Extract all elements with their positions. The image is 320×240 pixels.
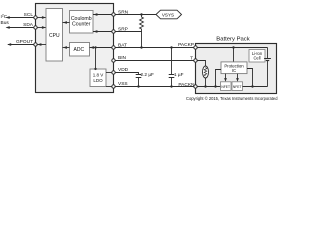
pin VSS xyxy=(112,85,115,88)
pin BIN xyxy=(112,59,115,62)
svg-text:VSYS: VSYS xyxy=(162,12,174,17)
pin PACKP xyxy=(194,46,197,49)
svg-text:2.2 µF: 2.2 µF xyxy=(141,72,155,77)
svg-text:SCL: SCL xyxy=(24,12,34,18)
arrowhead into Coulomb Counter SRN xyxy=(93,13,97,16)
IC U1 (fuel gauge) body xyxy=(36,4,114,93)
svg-text:NFET: NFET xyxy=(221,85,230,89)
junction C2 / VSS line xyxy=(170,85,172,87)
wire SRN internal xyxy=(93,14,114,16)
pin SCL xyxy=(34,16,37,19)
junction PACKN rail / protection tap xyxy=(214,85,216,87)
wire thermistor to PACKN rail xyxy=(205,78,207,87)
arrowhead SCL left xyxy=(6,16,10,19)
arrowhead into CPU from Coulomb Counter xyxy=(63,21,67,24)
pin T xyxy=(194,59,197,62)
svg-text:Bus: Bus xyxy=(1,20,10,26)
junction 1uF / BAT line xyxy=(170,46,172,48)
Battery Pack box xyxy=(196,44,277,94)
pin GPOUT xyxy=(34,43,37,46)
junction protection right / bottom rail xyxy=(251,85,253,87)
svg-text:GPOUT: GPOUT xyxy=(16,39,33,45)
Protection IC U3 xyxy=(221,62,247,74)
wire PACKN rail to Protection IC left xyxy=(216,70,222,87)
Li-Ion Cell label box xyxy=(249,50,265,63)
svg-text:I2C: I2C xyxy=(1,14,8,20)
svg-text:T: T xyxy=(190,55,193,61)
svg-text:Cell: Cell xyxy=(253,55,260,60)
svg-text:NFET: NFET xyxy=(233,85,242,89)
wire VSS internal xyxy=(106,86,114,88)
wire stub to Protection IC xyxy=(233,48,235,62)
battery cell BT1 xyxy=(264,48,271,87)
label I2C Bus xyxy=(1,14,10,26)
ADC block xyxy=(70,43,90,57)
svg-text:PACKP: PACKP xyxy=(178,42,194,48)
wire SRP external xyxy=(115,32,141,48)
capacitor C2 1uF xyxy=(169,48,184,87)
wire Q2 to cell negative xyxy=(243,86,268,88)
wire SRN to VSYS xyxy=(115,14,156,16)
pin SRN xyxy=(112,13,115,16)
arrowhead into Coulomb Counter SRP xyxy=(93,30,97,33)
arrowhead gate Q1 xyxy=(224,78,227,82)
wire PACKN to NFET1 xyxy=(197,86,221,88)
junction at LDO top xyxy=(94,68,96,70)
wire ADC to CPU xyxy=(63,47,70,49)
wire VSS to PACKN xyxy=(115,86,194,88)
svg-text:LDO: LDO xyxy=(93,78,103,83)
net label VSYS xyxy=(156,10,182,19)
wire PACKP rail xyxy=(197,47,267,49)
svg-text:Copyright © 2015, Texas Instru: Copyright © 2015, Texas Instruments Inco… xyxy=(186,96,278,101)
pin SDA xyxy=(34,26,37,29)
arrowhead GPOUT left xyxy=(7,43,11,46)
arrowhead SDA into CPU xyxy=(42,26,46,29)
pin SRP xyxy=(112,30,115,33)
transistor Q1 NFET xyxy=(221,82,232,91)
thermistor RT1 xyxy=(203,66,209,78)
pin VDD xyxy=(112,71,115,74)
wire T to thermistor xyxy=(197,61,205,67)
svg-text:Battery Pack: Battery Pack xyxy=(216,36,249,42)
pin BAT xyxy=(112,46,115,49)
wire GPOUT internal xyxy=(37,44,46,46)
arrowhead into CPU from ADC xyxy=(63,46,67,49)
wire VDD internal xyxy=(106,72,114,74)
junction BAT to LDO xyxy=(94,46,96,48)
wire SCL external xyxy=(7,17,34,19)
wire Coulomb Counter to CPU xyxy=(63,22,70,24)
wire GPOUT external xyxy=(8,44,34,46)
wire gate Q1 xyxy=(225,74,227,81)
LDO U2 (1.8 V LDO) block xyxy=(90,69,106,87)
svg-text:1.8 V: 1.8 V xyxy=(93,73,104,78)
CPU block xyxy=(46,9,63,62)
wire SDA internal xyxy=(37,27,45,29)
arrowhead SCL into CPU xyxy=(42,16,46,19)
svg-text:CPU: CPU xyxy=(49,33,60,39)
wire SDA external xyxy=(7,27,34,29)
wire BAT down to LDO xyxy=(95,48,97,70)
junction protection stub xyxy=(232,46,234,48)
transistor Q2 NFET xyxy=(232,82,243,91)
wire gate Q2 xyxy=(237,74,239,81)
junction SRP / BAT line xyxy=(140,46,142,48)
wire VDD to C1 xyxy=(115,73,138,75)
wire SCL internal xyxy=(37,17,45,19)
wire BAT to PACKP xyxy=(115,47,194,49)
svg-text:1 µF: 1 µF xyxy=(174,72,184,77)
wire SRP internal xyxy=(93,31,114,33)
svg-text:SDA: SDA xyxy=(23,22,34,28)
arrowhead gate Q2 xyxy=(236,78,239,82)
pin PACKN xyxy=(194,85,197,88)
wire Protection IC right to FET chain xyxy=(247,69,253,87)
capacitor C1 2.2uF xyxy=(136,72,154,86)
resistor R1 (sense) xyxy=(140,15,144,32)
wire BAT internal xyxy=(90,47,114,49)
junction C1 / VSS line xyxy=(137,85,139,87)
wire BIN to T xyxy=(115,60,194,62)
arrowhead SDA left xyxy=(6,26,10,29)
arrowhead GPOUT at pin xyxy=(37,43,41,46)
arrowhead into ADC xyxy=(90,46,94,49)
Coulomb Counter block xyxy=(70,11,94,34)
svg-text:IC: IC xyxy=(232,68,236,73)
junction SRN / sense resistor xyxy=(140,13,142,15)
svg-text:PACKN: PACKN xyxy=(178,82,195,88)
svg-text:ADC: ADC xyxy=(74,47,85,53)
svg-text:Counter: Counter xyxy=(72,22,91,28)
junction thermistor / PACKN xyxy=(204,85,206,87)
